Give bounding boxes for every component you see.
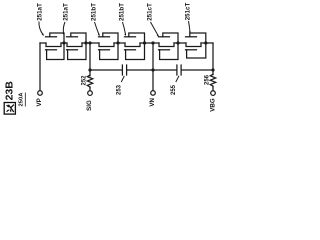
svg-text:256: 256 [205,74,211,85]
leader label 251aT T2 [63,22,65,34]
svg-text:250A: 250A [19,92,25,107]
wire rail T2-T3 (SIG tap) [82,42,99,44]
wire SIG tap rail to bus [89,43,91,76]
svg-text:251bT: 251bT [91,3,98,21]
svg-text:VBG: VBG [209,98,216,112]
resistor 256 [210,74,215,86]
junction VN node on bus [151,68,154,71]
leader label 251cT T5 [151,22,159,36]
junction T1 gate loop / rail [62,41,65,44]
svg-text:253: 253 [117,84,123,95]
junction T3 gate loop / rail [116,41,119,44]
svg-text:VP: VP [36,98,43,106]
leader label 251cT T6 [189,21,191,33]
svg-text:251cT: 251cT [185,3,192,21]
resistor 252 [87,75,92,88]
wire top rail segment VP corner to T1 [40,42,46,44]
svg-text:251aT: 251aT [63,3,70,21]
capacitor 255 [177,65,181,75]
svg-text:VN: VN [149,97,156,106]
junction VN tap / rail [151,41,154,44]
capacitor 253 [122,65,126,75]
transistor 251cT (T5) [159,33,179,60]
leader label 251aT T1 [39,22,43,35]
svg-text:23B: 23B [3,81,15,101]
label 250A (underlined) [19,92,26,107]
terminal SIG [88,91,93,96]
wire resistor 256 to VBG terminal [212,86,214,90]
figure title 図23B [3,81,15,114]
svg-text:251bT: 251bT [119,3,126,21]
svg-text:SIG: SIG [86,100,93,111]
leader label 255 [176,76,179,82]
wire bus C253 to VN node [127,69,153,71]
terminal VN [151,91,156,96]
terminal VBG [211,91,216,96]
wire rail T6 to right corner [201,42,213,44]
wire rail T3-T4 [114,42,125,44]
transistor 251aT (T1) [46,33,65,60]
terminal VP [38,91,43,96]
junction VBG node on bus [211,68,214,71]
transistor 251cT (T6) [186,33,206,58]
wire VN tap rail to terminal [152,43,154,91]
wire bus VN node to C255 [153,69,177,71]
wire rail T5-T6 [174,42,186,44]
junction T4 gate loop / rail [143,41,146,44]
svg-text:252: 252 [82,75,88,86]
leader label 251bT T4 [123,22,126,35]
wire VP terminal lead [39,43,41,91]
wire rail T1-T2 [61,42,67,44]
junction SIG node on bus [88,68,91,71]
wire bus C255 to VBG node [181,69,213,71]
wire rail T4-T5 (VN tap) [140,42,159,44]
transistor 251aT (T2) [67,33,87,60]
svg-text:251aT: 251aT [37,3,44,21]
wire resistor 252 to SIG terminal [89,88,91,91]
wire bus SIG node to C253 [90,69,122,71]
leader label 251bT T3 [95,22,100,35]
svg-text:255: 255 [171,84,177,95]
junction SIG tap / rail [88,41,91,44]
junction T6 gate loop / rail [204,41,207,44]
junction T5 gate loop / rail [176,41,179,44]
wire right end rail to bus [212,43,214,75]
leader label 253 [121,76,124,82]
svg-text:251cT: 251cT [147,3,154,21]
transistor 251bT (T3) [99,33,119,60]
transistor 251bT (T4) [125,33,145,60]
junction T2 gate loop / rail [84,41,87,44]
